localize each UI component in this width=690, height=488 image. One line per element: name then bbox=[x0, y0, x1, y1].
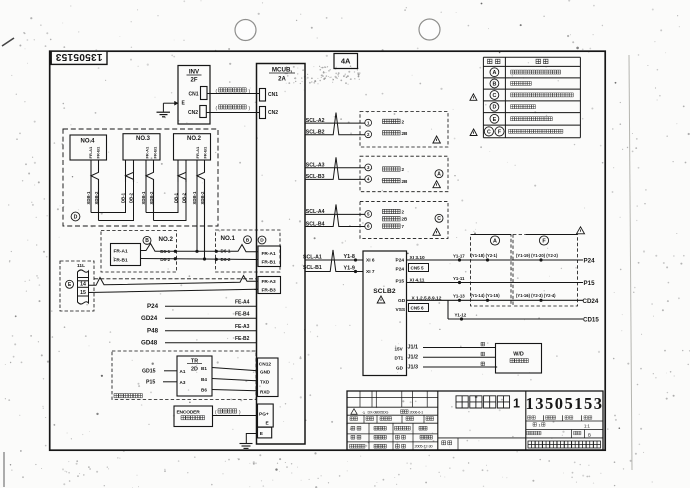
svg-text:GND: GND bbox=[260, 370, 271, 375]
svg-text:FR-A3: FR-A3 bbox=[262, 279, 276, 285]
svg-text:DB-1: DB-1 bbox=[173, 192, 178, 203]
svg-text:DB-2: DB-2 bbox=[129, 192, 134, 203]
svg-text:GD48: GD48 bbox=[141, 339, 158, 346]
svg-text:C: C bbox=[487, 129, 491, 135]
svg-text:P15: P15 bbox=[584, 280, 596, 287]
svg-text:FR-A1: FR-A1 bbox=[88, 146, 93, 159]
svg-text:P24: P24 bbox=[396, 257, 405, 263]
svg-text:(Y1-16) (Y2-3) (Y2-4): (Y1-16) (Y2-3) (Y2-4) bbox=[516, 293, 556, 298]
svg-text:D: D bbox=[260, 238, 264, 244]
svg-text:14: 14 bbox=[80, 282, 86, 288]
svg-text:D6-2: D6-2 bbox=[160, 257, 170, 262]
svg-text:D: D bbox=[74, 214, 78, 220]
svg-text:XI 6: XI 6 bbox=[366, 258, 375, 264]
svg-text:Y1-12: Y1-12 bbox=[455, 312, 467, 317]
svg-text:Y1-11: Y1-11 bbox=[453, 276, 465, 281]
svg-text:A: A bbox=[492, 70, 496, 76]
svg-text:NO.3: NO.3 bbox=[136, 136, 151, 142]
svg-text:ENCODER: ENCODER bbox=[177, 409, 201, 415]
svg-text:B1: B1 bbox=[201, 366, 207, 371]
svg-text:SCLB2: SCLB2 bbox=[373, 288, 396, 295]
svg-text:2B: 2B bbox=[402, 179, 409, 184]
svg-text:W/D: W/D bbox=[513, 352, 524, 358]
svg-text:A: A bbox=[493, 238, 497, 244]
svg-text:(Y1-14) (Y1-15): (Y1-14) (Y1-15) bbox=[471, 293, 501, 298]
svg-text:CN5 6: CN5 6 bbox=[411, 306, 424, 311]
svg-text:1: 1 bbox=[539, 422, 541, 427]
svg-text:B: B bbox=[588, 432, 591, 437]
svg-text:FR-B1: FR-B1 bbox=[152, 146, 157, 159]
svg-text:P15: P15 bbox=[396, 278, 405, 284]
svg-text:XI 7: XI 7 bbox=[366, 269, 375, 275]
svg-text:FR-A1: FR-A1 bbox=[145, 146, 150, 159]
svg-text:B4: B4 bbox=[201, 377, 207, 382]
svg-text:D: D bbox=[492, 105, 496, 111]
svg-text:B: B bbox=[246, 237, 250, 243]
svg-text:NO.4: NO.4 bbox=[81, 138, 96, 144]
svg-text:2B: 2B bbox=[402, 131, 409, 136]
svg-text:2F: 2F bbox=[190, 78, 197, 84]
svg-text:FR-A1: FR-A1 bbox=[195, 146, 200, 159]
svg-text:A1: A1 bbox=[180, 369, 186, 374]
svg-text:DX-08005DG: DX-08005DG bbox=[368, 411, 389, 415]
svg-text:GD15: GD15 bbox=[142, 369, 156, 375]
svg-text:A: A bbox=[437, 172, 441, 178]
svg-text:FE-A4: FE-A4 bbox=[235, 300, 250, 306]
svg-text:(Y1-19) (Y1-20) (Y2-2): (Y1-19) (Y1-20) (Y2-2) bbox=[516, 253, 558, 258]
svg-text:MCUB,: MCUB, bbox=[272, 67, 293, 74]
svg-text:CN2: CN2 bbox=[268, 110, 278, 116]
svg-text:XDB-2: XDB-2 bbox=[94, 191, 99, 205]
svg-text:FR-B1: FR-B1 bbox=[96, 146, 101, 159]
svg-text:Y1-17: Y1-17 bbox=[453, 253, 465, 258]
svg-text:B6: B6 bbox=[201, 388, 207, 393]
svg-text:2: 2 bbox=[402, 167, 405, 172]
svg-text:J1/3: J1/3 bbox=[408, 364, 419, 370]
svg-text:J1/1: J1/1 bbox=[408, 345, 419, 351]
svg-text:P24: P24 bbox=[147, 303, 159, 310]
svg-text:DB-2: DB-2 bbox=[181, 192, 186, 203]
svg-text:15: 15 bbox=[80, 290, 86, 296]
svg-text:15V: 15V bbox=[395, 346, 404, 351]
svg-text:1: 1 bbox=[513, 397, 520, 411]
svg-text:C: C bbox=[492, 93, 496, 99]
svg-text:J1/2: J1/2 bbox=[408, 354, 419, 360]
svg-text:XDB-1: XDB-1 bbox=[141, 191, 146, 205]
svg-text:P48: P48 bbox=[147, 327, 159, 334]
svg-text:FR-B1: FR-B1 bbox=[203, 146, 208, 159]
svg-text:CD24: CD24 bbox=[583, 298, 599, 305]
svg-text:DT1: DT1 bbox=[395, 355, 404, 360]
svg-text:FR-A1: FR-A1 bbox=[114, 248, 128, 254]
svg-text:CN1: CN1 bbox=[268, 92, 278, 98]
svg-text:XDB-2: XDB-2 bbox=[200, 191, 205, 205]
svg-text:XDB-1: XDB-1 bbox=[86, 191, 91, 205]
svg-text:13505153: 13505153 bbox=[526, 394, 604, 413]
svg-text:GD: GD bbox=[396, 365, 404, 370]
svg-text:FR-B1: FR-B1 bbox=[262, 260, 276, 266]
svg-text:11L: 11L bbox=[77, 263, 85, 269]
svg-text:D6-1: D6-1 bbox=[160, 249, 170, 254]
svg-text:13505153: 13505153 bbox=[55, 51, 102, 62]
svg-text:NO.2: NO.2 bbox=[159, 236, 174, 243]
svg-text:Y1-8: Y1-8 bbox=[344, 254, 355, 260]
svg-text:FR-A1: FR-A1 bbox=[262, 251, 276, 257]
svg-text:TXD: TXD bbox=[260, 380, 270, 385]
svg-text:FE-B2: FE-B2 bbox=[235, 336, 250, 342]
svg-text:DB-1: DB-1 bbox=[121, 192, 126, 203]
svg-text:FE-B4: FE-B4 bbox=[235, 312, 250, 318]
svg-text:1:1: 1:1 bbox=[584, 424, 590, 429]
svg-text:XDB-1: XDB-1 bbox=[192, 191, 197, 205]
svg-text:2D: 2D bbox=[191, 366, 198, 372]
svg-text:CN12: CN12 bbox=[259, 361, 272, 367]
svg-text:B: B bbox=[145, 238, 149, 244]
svg-text:VSS: VSS bbox=[396, 307, 406, 313]
svg-text:C: C bbox=[437, 216, 441, 222]
svg-text:P15: P15 bbox=[146, 380, 155, 386]
svg-text:E: E bbox=[493, 117, 497, 123]
svg-text:2B: 2B bbox=[402, 217, 408, 222]
svg-text:A3: A3 bbox=[180, 380, 186, 385]
svg-text:P24: P24 bbox=[584, 258, 596, 265]
svg-text:CD15: CD15 bbox=[583, 317, 599, 324]
svg-text:2: 2 bbox=[402, 120, 405, 125]
svg-text:2A: 2A bbox=[278, 77, 286, 83]
svg-text:(Y1-18) (Y2-1): (Y1-18) (Y2-1) bbox=[471, 253, 498, 258]
svg-text:B: B bbox=[492, 81, 496, 87]
svg-text:GD24: GD24 bbox=[141, 315, 158, 322]
svg-text:FR-B1: FR-B1 bbox=[114, 257, 128, 263]
svg-text:CN2: CN2 bbox=[188, 110, 198, 116]
svg-text:FE-A3: FE-A3 bbox=[235, 324, 250, 330]
svg-text:Y1-13: Y1-13 bbox=[453, 293, 465, 298]
svg-text:4A: 4A bbox=[341, 57, 351, 66]
svg-text:RXD: RXD bbox=[260, 389, 270, 394]
svg-text:SCL-B1: SCL-B1 bbox=[303, 265, 322, 271]
svg-text:CN1: CN1 bbox=[189, 91, 199, 97]
svg-text:CN5 5: CN5 5 bbox=[411, 266, 424, 271]
svg-text:INV: INV bbox=[189, 69, 200, 76]
svg-text:GD: GD bbox=[398, 298, 406, 304]
svg-text:NO.2: NO.2 bbox=[187, 136, 202, 142]
svg-text:P24: P24 bbox=[396, 266, 405, 272]
svg-text:PG+: PG+ bbox=[259, 412, 269, 418]
svg-text:XDB-2: XDB-2 bbox=[149, 191, 154, 205]
svg-text:NO.1: NO.1 bbox=[221, 235, 236, 242]
svg-text:F: F bbox=[498, 129, 501, 135]
svg-text:FR-B3: FR-B3 bbox=[262, 288, 276, 294]
svg-text:Y1-9: Y1-9 bbox=[344, 266, 355, 272]
svg-text:2006-6-1: 2006-6-1 bbox=[410, 411, 424, 415]
svg-text:2005-12-30: 2005-12-30 bbox=[415, 444, 434, 449]
